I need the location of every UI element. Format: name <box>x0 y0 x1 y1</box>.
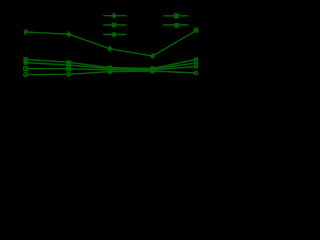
series S2 line <box>26 60 196 69</box>
markers S2 cross <box>24 57 199 70</box>
legend c2 row1 sample line <box>163 15 189 17</box>
markers S4 open square <box>24 67 198 77</box>
markers S1 plus <box>24 27 199 71</box>
legend row3 star <box>112 32 115 37</box>
legend c2 row2 filled square <box>174 23 179 28</box>
legend row1 plus <box>112 13 117 19</box>
markers S3 star <box>24 60 154 71</box>
legend column 1 <box>103 13 126 37</box>
legend row2 sample line <box>103 24 126 26</box>
legend row1 sample line <box>103 15 126 17</box>
markers S5 open circle <box>24 73 28 77</box>
legend c2 row2 sample line <box>163 24 189 26</box>
legend row3 sample line <box>103 34 126 36</box>
legend c2 row1 filled square <box>174 13 179 18</box>
series S5 line <box>26 71 196 75</box>
series S3 line <box>26 63 196 69</box>
legend column 2 <box>163 13 189 27</box>
series S1 line <box>26 31 196 57</box>
series S4 line <box>26 67 196 70</box>
legend row2 cross <box>112 23 116 27</box>
